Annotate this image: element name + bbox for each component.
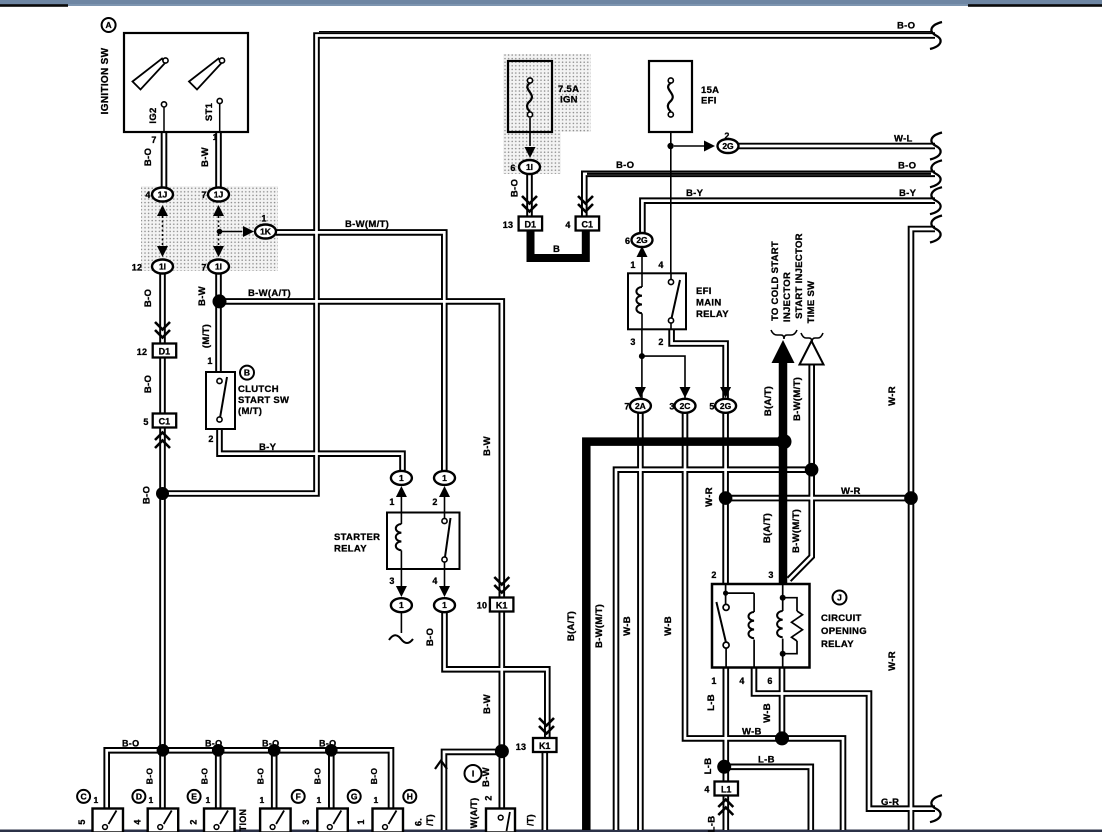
starter relay box (387, 513, 460, 570)
svg-text:L-B: L-B (703, 758, 714, 775)
arrow into 2G-6 (637, 246, 648, 257)
svg-text:1: 1 (389, 497, 394, 507)
wire starter relay pin2 stub (444, 497, 446, 513)
wire starter sw A/T branch (444, 752, 502, 830)
svg-text:2: 2 (711, 570, 716, 580)
wire COR pin4 G-R (754, 667, 935, 809)
starter relay switch (444, 513, 446, 519)
wire W-L (736, 143, 935, 150)
wire drop to switch E (215, 750, 222, 809)
svg-text:B(A/T): B(A/T) (763, 386, 774, 416)
svg-text:TION: TION (238, 809, 248, 832)
fuse 7.5A IGN box (508, 61, 552, 132)
svg-text:1I: 1I (215, 262, 222, 272)
wire B-W(M/T) shaft to COR pin3 (789, 360, 812, 580)
svg-text:B(A/T): B(A/T) (566, 611, 577, 641)
svg-text:B-W(M/T): B-W(M/T) (345, 219, 389, 230)
svg-text:B-O: B-O (510, 179, 521, 197)
svg-text:10: 10 (477, 601, 488, 611)
break W-R (930, 216, 942, 243)
svg-text:IG2: IG2 (148, 107, 159, 123)
wire B-O to C1-4 (584, 174, 935, 216)
svg-text:B(A/T): B(A/T) (762, 513, 773, 543)
wire W-R horizontal (726, 497, 911, 500)
wire starter sw A/T branch (444, 752, 502, 830)
connector C1 pin4 (576, 217, 600, 231)
svg-text:EFI: EFI (701, 96, 717, 107)
wire B-O starter relay to K1-13 (445, 611, 548, 739)
svg-text:B-W: B-W (482, 436, 493, 456)
svg-text:1: 1 (213, 133, 218, 142)
label circle F (292, 790, 305, 803)
wire link 1J-4 to 1I-12 (dashed) (162, 216, 164, 246)
wire B-O left column (159, 272, 166, 809)
halftone shading around 7.5A fuse (503, 54, 591, 132)
wire below K1-13 (541, 752, 548, 830)
wire drop to switch F (271, 750, 278, 809)
connector K1 pin13 (533, 738, 557, 752)
svg-text:7: 7 (201, 190, 206, 200)
svg-text:5: 5 (709, 402, 714, 412)
svg-text:EFI: EFI (696, 286, 712, 297)
ignition sw lever ST1 (189, 59, 222, 90)
label circle A (102, 18, 116, 32)
label circle I (465, 765, 482, 782)
svg-text:B-O: B-O (369, 768, 379, 785)
ground squiggle (389, 635, 413, 643)
svg-text:ST1: ST1 (204, 102, 215, 121)
wire B(A/T) thick shaft to COR pin3 (779, 352, 788, 584)
svg-text:7.5A: 7.5A (558, 84, 579, 95)
connector 1 starter relay pin2 (434, 471, 455, 485)
wire W-B from 2C (685, 412, 843, 831)
wire 1I-7 to clutch (215, 272, 222, 373)
ignition switch box A (124, 33, 248, 132)
svg-text:B-O: B-O (897, 21, 915, 32)
COR resistor (792, 611, 803, 641)
label circle H (403, 790, 416, 803)
svg-text:1: 1 (711, 676, 716, 686)
break B-Y (930, 187, 942, 214)
EFI main relay box (628, 273, 686, 329)
svg-text:STARTER: STARTER (334, 532, 380, 543)
fuse 15A element (668, 78, 673, 83)
wire W-R right edge down (911, 229, 935, 830)
svg-text:MAIN: MAIN (696, 298, 721, 309)
label circle B (240, 366, 254, 380)
svg-text:B-W(M/T): B-W(M/T) (792, 377, 803, 421)
arrow into starter oval 2 (439, 486, 450, 497)
svg-text:B-W: B-W (200, 147, 211, 167)
svg-text:C1: C1 (582, 219, 594, 229)
svg-text:6: 6 (625, 236, 630, 246)
svg-text:1: 1 (93, 795, 98, 805)
connector 1 starter relay pin3 (391, 598, 412, 612)
wire ST1 drop (217, 131, 220, 188)
wire drop to switch G (330, 750, 333, 809)
wire B(A/T) thick branch left and down (586, 442, 783, 830)
wire B-W(A/T) to K1-10 and starter sw (223, 301, 502, 809)
wire junction to 1K (220, 231, 243, 233)
arrow into 2C (680, 387, 691, 398)
svg-text:15A: 15A (701, 85, 719, 96)
svg-text:B-O: B-O (616, 160, 634, 171)
node B-W junction (A/T split) (213, 294, 227, 308)
svg-text:A: A (106, 20, 112, 30)
svg-text:6: 6 (767, 676, 772, 686)
connector 1I pin12 (152, 260, 173, 274)
svg-text:3: 3 (389, 576, 394, 586)
switch box I (starter A/T) (486, 809, 515, 832)
break B-O mid (930, 160, 942, 187)
svg-text:B: B (553, 244, 560, 255)
svg-text:12: 12 (137, 347, 148, 357)
svg-text:B-Y: B-Y (899, 188, 917, 199)
svg-text:4: 4 (565, 220, 570, 230)
svg-text:C1: C1 (159, 416, 171, 426)
wire 2G-6 to EFI relay pin1 (641, 246, 643, 273)
starter relay coil (400, 513, 402, 525)
connector 1J pin4 (152, 188, 173, 202)
label circle J (833, 591, 847, 605)
svg-text:7: 7 (151, 135, 156, 145)
svg-text:1: 1 (261, 214, 266, 224)
svg-text:2: 2 (189, 819, 199, 824)
svg-text:3: 3 (630, 337, 635, 347)
EFI main relay coil (641, 273, 643, 287)
wire starter relay pin3 stub (400, 569, 402, 586)
svg-text:B-O: B-O (256, 768, 266, 785)
connector 2G pin5 (715, 399, 736, 413)
svg-text:6: 6 (510, 163, 515, 173)
wire COR pin1 L-B (724, 667, 727, 830)
wire drop to switch E (217, 750, 220, 809)
break B-O top (930, 22, 942, 49)
switch box 2 bottom row (148, 809, 179, 832)
wire drop to switch G (328, 750, 335, 809)
svg-text:W(A/T): W(A/T) (469, 798, 479, 829)
svg-text:W-B: W-B (663, 616, 674, 636)
wire COR pin6 W-B (781, 667, 784, 738)
chevron into K1-10 (494, 577, 509, 593)
arrow into 1K (243, 226, 254, 237)
wire 1I-7 to clutch (217, 272, 220, 373)
svg-text:W-B: W-B (622, 616, 633, 636)
svg-text:3: 3 (768, 570, 773, 580)
node W-R junction left (719, 491, 733, 505)
wire B-Y to 2G-6 (642, 201, 935, 234)
arrow starter pin4 out (439, 586, 450, 597)
svg-text:1: 1 (630, 260, 635, 270)
wire 7.5A fuse to 1I-6 (529, 118, 531, 146)
svg-text:13: 13 (503, 220, 514, 230)
svg-text:B-O: B-O (262, 739, 279, 749)
svg-text:6.: 6. (414, 818, 424, 826)
svg-text:W-R: W-R (887, 651, 898, 671)
svg-text:3: 3 (669, 402, 674, 412)
svg-text:RELAY: RELAY (334, 544, 367, 555)
arrow into 1I-7 (213, 246, 224, 257)
connector K1 pin10 (490, 598, 514, 612)
svg-text:B-O: B-O (142, 486, 153, 504)
wire drop to switch F (273, 750, 276, 809)
wire 15A fuse down to EFI relay pin4 (670, 118, 672, 273)
svg-text:B-O: B-O (319, 739, 336, 749)
svg-text:RELAY: RELAY (696, 309, 729, 320)
svg-text:RELAY: RELAY (821, 639, 854, 650)
COR switch blade (716, 602, 726, 643)
node 15A fuse junction (667, 143, 673, 149)
arrow into 1J-4 (157, 205, 168, 216)
wire IG2 drop (163, 131, 166, 188)
wire COR pin6 W-B (779, 667, 786, 738)
svg-text:G: G (351, 791, 358, 801)
svg-text:W-L: W-L (894, 134, 913, 145)
arrow into 1J-7 (213, 205, 224, 216)
svg-text:1: 1 (316, 795, 321, 805)
wire B-W(A/T) to K1-10 and starter sw (223, 301, 502, 809)
label circle D (132, 790, 145, 803)
svg-text:D: D (136, 791, 142, 801)
svg-text:12: 12 (132, 263, 143, 273)
svg-text:L1: L1 (721, 784, 732, 794)
break G-R (930, 795, 942, 822)
svg-text:2G: 2G (722, 141, 734, 151)
svg-text:CLUTCH: CLUTCH (238, 384, 279, 395)
svg-text:B-O: B-O (143, 375, 154, 393)
svg-text:1I: 1I (526, 162, 533, 172)
svg-text:/T): /T) (526, 814, 536, 826)
wire B-O to C1-4 (584, 174, 935, 216)
wire bottom B-O rail (107, 750, 391, 809)
svg-text:G-R: G-R (881, 797, 899, 808)
svg-text:B-W(M/T): B-W(M/T) (594, 604, 605, 648)
connector D1 pin12 (153, 344, 177, 358)
node EFI pin3 junction (639, 353, 645, 359)
svg-text:C: C (81, 791, 87, 801)
wire W-B from 2A (639, 412, 642, 831)
svg-text:(M/T): (M/T) (238, 406, 262, 417)
connector 1 starter relay pin4 (434, 598, 455, 612)
svg-text:1: 1 (399, 600, 404, 610)
fuse 15A EFI box (649, 61, 692, 132)
switch box 3 bottom row (204, 809, 235, 832)
wire B-O top loop (166, 36, 935, 494)
svg-text:B-W: B-W (482, 694, 493, 714)
arrow B-W(M/T) up outline (to start injector time sw) (800, 341, 824, 365)
svg-text:1J: 1J (214, 190, 224, 200)
svg-text:1I: 1I (159, 262, 166, 272)
wire EFI pin3 branch to 2C (642, 356, 685, 399)
wire B-O starter relay to K1-13 (445, 611, 548, 739)
arrow into 2G-2 (704, 141, 715, 152)
arrow into 1I-12 (157, 246, 168, 257)
wire starter relay pin4 stub (444, 569, 446, 586)
wire B-O mid extra line (587, 173, 931, 175)
clutch start sw box B (206, 372, 235, 429)
svg-text:2: 2 (658, 337, 663, 347)
wire junction to 2G-2 (674, 145, 708, 147)
node B-O rail junction F (268, 744, 281, 757)
wire B-O top loop (166, 36, 935, 494)
node W-R junction right (904, 491, 918, 505)
svg-text:B-O: B-O (898, 161, 916, 172)
connector 2C pin3 (675, 399, 696, 413)
svg-text:1: 1 (259, 795, 264, 805)
svg-text:1: 1 (442, 600, 447, 610)
svg-text:L-B: L-B (758, 755, 775, 766)
label circle E (188, 790, 201, 803)
svg-text:K1: K1 (539, 741, 551, 751)
wire bottom B-O rail (107, 750, 391, 809)
window border left segment (0, 4, 68, 7)
svg-text:W-R: W-R (887, 386, 898, 406)
chevron into C1-4 (578, 196, 593, 212)
connector 1I pin6 (519, 160, 540, 174)
label circle G (348, 790, 361, 803)
svg-text:5: 5 (143, 417, 148, 427)
svg-text:OPENING: OPENING (821, 626, 867, 637)
svg-text:START INJECTOR: START INJECTOR (794, 233, 805, 319)
node B-O rail junction G (325, 744, 338, 757)
arrow starter pin3 out (396, 586, 407, 597)
wire W-R right edge down (911, 229, 935, 830)
connector 2G pin2 (718, 139, 739, 153)
svg-text:W-B: W-B (742, 727, 762, 738)
connector L1 pin4 (715, 782, 739, 796)
fuse 7.5A element (527, 78, 532, 83)
svg-text:J: J (837, 593, 842, 603)
node B-W junction at starter sw (495, 744, 509, 758)
svg-text:13: 13 (516, 742, 527, 752)
wire starter relay pin1 stub (400, 497, 402, 513)
wire link 1J-7 to 1I-7 (dashed) (218, 216, 220, 246)
window bottom strip (0, 830, 1102, 832)
chevron into K1-13 (539, 718, 554, 734)
svg-text:2: 2 (432, 497, 437, 507)
svg-text:H: H (407, 791, 413, 801)
wire starter relay pin3 to ground squiggle (400, 612, 402, 634)
svg-text:E: E (191, 791, 197, 801)
wire ST1 drop (215, 131, 222, 188)
wire COR pin4 G-R (754, 667, 935, 809)
svg-text:W-R: W-R (704, 487, 715, 507)
switch box 4 bottom row (260, 809, 291, 832)
svg-text:F: F (296, 791, 301, 801)
switch box 1 bottom row (93, 809, 124, 832)
wire B-W(M/T) branch left (616, 470, 812, 830)
svg-text:START SW: START SW (238, 395, 289, 406)
arrow into 1I-6 (525, 147, 536, 158)
arrow into 2A (635, 387, 646, 398)
svg-text:2G: 2G (636, 235, 648, 245)
svg-text:INJECTOR: INJECTOR (782, 272, 793, 322)
svg-text:IGN: IGN (560, 95, 578, 106)
svg-text:3: 3 (301, 819, 311, 824)
wire B-O left column (161, 272, 164, 809)
svg-text:4: 4 (133, 819, 143, 824)
window title bar (0, 0, 1102, 5)
svg-text:B-W: B-W (197, 286, 208, 306)
svg-text:1: 1 (207, 356, 212, 366)
node B-O junction left (156, 487, 169, 500)
connector 1 starter relay pin1 (391, 471, 412, 485)
svg-text:4: 4 (739, 676, 744, 686)
wire EFI relay pin3 to 2A (641, 329, 643, 400)
brace under START INJECTOR TIME SW (801, 333, 823, 342)
wire W-B from 2C (685, 412, 843, 831)
wire B-W(M/T) 1K to starter relay (276, 232, 444, 472)
window border right segment (968, 4, 1102, 7)
wire B-W(M/T) shaft to COR pin3 (789, 360, 812, 580)
COR pin2 stub and switch (726, 584, 755, 612)
wire L-B branch (726, 767, 811, 830)
connector 1K pin1 (255, 225, 276, 239)
svg-text:1K: 1K (260, 227, 272, 237)
svg-text:IGNITION SW: IGNITION SW (100, 47, 111, 114)
svg-text:1: 1 (442, 473, 447, 483)
svg-text:B-O: B-O (143, 289, 154, 307)
svg-text:1: 1 (148, 795, 153, 805)
clutch sw contacts (220, 377, 227, 418)
wire B thick link D1-13 to C1-4 (531, 228, 586, 258)
wire IG2 stem (163, 107, 165, 131)
wire B-W(M/T) 1K to starter relay (276, 232, 444, 472)
wire W-B from 2A (637, 412, 644, 831)
node W-B junction (775, 731, 789, 745)
connector 2G pin6 (632, 233, 653, 247)
arrow B(A/T) up (to cold start injector) (772, 340, 795, 363)
svg-text:B-O: B-O (143, 148, 154, 166)
wire EFI relay pin2 to 2G-5 (672, 329, 726, 401)
svg-text:2: 2 (208, 434, 213, 444)
svg-text:K1: K1 (496, 600, 508, 610)
wire EFI relay pin2 to 2G-5 (672, 329, 726, 401)
chevron on starter A/T branch (435, 761, 447, 770)
svg-text:D1: D1 (525, 219, 537, 229)
ignition ST1 contact (217, 98, 222, 103)
node L-B junction (717, 760, 731, 774)
break W-L (930, 133, 942, 160)
svg-text:B-O: B-O (200, 768, 210, 785)
arrow into 2G-5 (720, 387, 731, 398)
wire B-Y clutch to starter relay (220, 428, 403, 472)
circuit opening relay box J (712, 584, 810, 668)
svg-text:2A: 2A (635, 401, 646, 411)
svg-text:1J: 1J (158, 190, 168, 200)
node B-O rail junction D (157, 744, 170, 757)
svg-text:2: 2 (484, 795, 494, 800)
svg-text:1: 1 (205, 795, 210, 805)
svg-text:2C: 2C (680, 401, 691, 411)
svg-text:4: 4 (658, 260, 663, 270)
svg-text:5: 5 (77, 819, 87, 824)
node B(A/T) junction (777, 434, 792, 449)
svg-text:B-O: B-O (122, 739, 139, 749)
svg-text:2G: 2G (720, 401, 732, 411)
svg-text:4: 4 (432, 576, 437, 586)
wire COR pin1 L-B (722, 667, 729, 830)
wire 1I-6 to D1-13 (528, 173, 531, 217)
svg-text:B-Y: B-Y (686, 188, 704, 199)
svg-text:I: I (472, 769, 474, 779)
svg-text:1: 1 (356, 819, 366, 824)
wire B-O top extra line (319, 31, 931, 33)
wire B-Y to 2G-6 (642, 201, 935, 234)
chevron below L1-4 (718, 800, 733, 816)
svg-text:D1: D1 (159, 346, 171, 356)
node B-W(M/T) junction (805, 463, 819, 477)
